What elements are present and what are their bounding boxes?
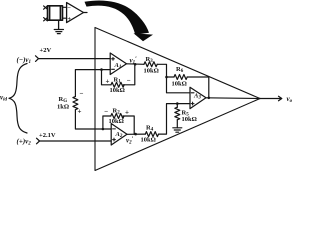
- svg-text:A2: A2: [115, 131, 123, 139]
- svg-text:R1: R1: [114, 76, 122, 84]
- svg-text:R2: R2: [113, 107, 121, 115]
- big triangle (instrumentation amp body): [95, 28, 260, 171]
- svg-text:−: −: [68, 6, 72, 12]
- svg-text:R6: R6: [176, 66, 184, 74]
- op-amp A1: [110, 53, 126, 75]
- junction dot v2': [134, 133, 137, 136]
- wire R6 right riser: [187, 77, 209, 98]
- resistor RG: [73, 97, 78, 110]
- wire R1 right riser: [123, 64, 135, 85]
- svg-text:1kΩ: 1kΩ: [57, 104, 69, 111]
- svg-text:10kΩ: 10kΩ: [141, 137, 156, 144]
- svg-text:−: −: [104, 107, 108, 115]
- junction dot R5 tap: [176, 102, 179, 105]
- wire R3 to A3 minus: [157, 64, 190, 93]
- wire R1 left riser: [102, 70, 112, 85]
- junction dot A3 out: [208, 97, 211, 100]
- resistor R3: [144, 62, 157, 67]
- big curved arrow: [85, 0, 154, 41]
- input x-mark top: [44, 6, 48, 9]
- svg-text:10kΩ: 10kΩ: [109, 118, 124, 125]
- svg-text:+: +: [68, 17, 72, 23]
- svg-text:−: −: [127, 76, 131, 84]
- junction dot v1': [134, 63, 137, 66]
- svg-text:R4: R4: [146, 125, 154, 133]
- wire R2 left riser: [103, 116, 111, 129]
- resistor R6: [174, 75, 187, 80]
- wire R4 to A3 plus: [159, 104, 191, 135]
- wire box to op-amp top: [63, 6, 67, 8]
- A2 - pin: [113, 128, 116, 130]
- wire R2 right riser: [123, 116, 134, 134]
- svg-text:+: +: [125, 108, 129, 116]
- junction dot R6 tap: [165, 76, 168, 79]
- wire A2 minus pin: [110, 128, 113, 130]
- junction dot A1 minus node: [100, 68, 103, 71]
- op-amp (pictogram): [67, 3, 84, 23]
- resistor R2: [111, 114, 124, 119]
- svg-text:10kΩ: 10kΩ: [182, 116, 197, 123]
- wire R5 top: [176, 104, 178, 108]
- op-amp A2: [111, 124, 127, 146]
- input terminal v2 chevron: [37, 138, 40, 144]
- resistor R4: [145, 132, 158, 137]
- wire A3 out: [206, 97, 260, 100]
- resistor R1: [111, 82, 124, 87]
- svg-text:+2.1V: +2.1V: [39, 132, 56, 139]
- ground (pictogram): [54, 20, 63, 33]
- wire v2 input: [40, 140, 112, 142]
- A1 - pin: [112, 68, 115, 70]
- svg-text:R3: R3: [146, 56, 154, 64]
- output arrow: [260, 96, 282, 101]
- wire A1 minus: [75, 70, 110, 97]
- svg-text:+2V: +2V: [40, 47, 52, 54]
- svg-text:10kΩ: 10kΩ: [144, 68, 159, 75]
- svg-text:10kΩ: 10kΩ: [172, 81, 187, 88]
- pictogram output stub: [84, 12, 88, 14]
- A2 + pin: [113, 138, 116, 141]
- svg-text:10kΩ: 10kΩ: [110, 87, 125, 94]
- wire R6 left: [167, 76, 175, 78]
- svg-text:A1: A1: [114, 62, 122, 70]
- wire A1 out: [127, 63, 145, 66]
- svg-text:(−)v1: (−)v1: [17, 56, 32, 65]
- svg-text:vid: vid: [0, 94, 7, 103]
- wire R5 to ground: [176, 120, 178, 128]
- wire box to op-amp bottom: [63, 17, 67, 19]
- A3 + pin: [191, 102, 194, 105]
- ground R5: [173, 128, 182, 132]
- op-amp A3: [190, 87, 206, 108]
- input terminal v1 chevron: [36, 56, 39, 62]
- A3 - pin: [191, 92, 194, 94]
- wire v1 input: [39, 58, 111, 60]
- svg-text:vo: vo: [287, 95, 293, 104]
- resistor R5: [175, 107, 180, 120]
- svg-text:v2′: v2′: [126, 136, 134, 145]
- input x-mark bottom: [44, 18, 48, 21]
- wire RG bottom: [75, 110, 110, 129]
- input brace: [9, 64, 27, 134]
- wire A2 out: [127, 133, 145, 135]
- svg-text:+: +: [106, 77, 110, 85]
- svg-text:−: −: [80, 90, 84, 98]
- junction dot A2 minus node: [102, 128, 105, 131]
- svg-text:+: +: [78, 108, 82, 116]
- svg-text:(+)v2: (+)v2: [17, 138, 32, 147]
- sensor box (pictogram): [48, 6, 63, 20]
- A1 + pin: [112, 57, 115, 60]
